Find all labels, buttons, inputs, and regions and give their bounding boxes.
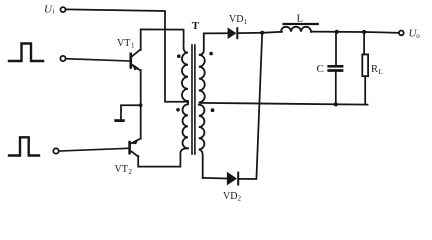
svg-text:VT: VT (115, 164, 128, 175)
transformer core (192, 45, 195, 154)
ground (114, 119, 124, 122)
svg-text:VD: VD (223, 191, 237, 202)
input pulse waveform 2 (9, 137, 39, 155)
svg-text:R: R (371, 64, 378, 75)
wire L to output terminal (311, 32, 399, 33)
junction node A (260, 31, 264, 35)
svg-text:2: 2 (129, 168, 133, 176)
label Uo (409, 28, 421, 40)
polarity dot primary lower (176, 108, 180, 112)
transistor VT1 (131, 49, 141, 70)
wire VT1 collector to primary top (141, 29, 184, 50)
terminal input 2 (53, 148, 58, 153)
label VT2 (115, 164, 133, 176)
transistor VT2 (130, 139, 141, 157)
wire Ui to primary center tap (66, 9, 188, 101)
wire input1 to VT1 base (66, 59, 130, 61)
svg-text:2: 2 (238, 195, 242, 203)
wire VT2 collector to primary bottom (138, 148, 188, 166)
svg-text:U: U (44, 4, 53, 16)
diode VD2 (227, 172, 238, 186)
inductor L core bar (282, 23, 319, 25)
junction C bottom (334, 102, 338, 106)
label VT1 (117, 38, 135, 50)
svg-text:VT: VT (117, 38, 130, 49)
label Ui (44, 4, 55, 16)
inductor L (281, 27, 311, 32)
wire VT1 emitter to VT2 emitter (140, 70, 142, 138)
label VD2 (223, 191, 242, 203)
wire input2 to VT2 base (59, 148, 130, 151)
svg-text:1: 1 (131, 42, 135, 50)
transformer secondary winding lower half (199, 105, 205, 178)
transformer primary winding lower half (183, 103, 188, 149)
svg-text:VD: VD (229, 14, 243, 25)
capacitor C (327, 32, 343, 105)
terminal Ui (61, 7, 66, 12)
wire node A to inductor L (262, 32, 282, 33)
terminal Uo (399, 31, 404, 36)
svg-text:L: L (297, 13, 303, 24)
label RL (371, 64, 383, 76)
polarity dot secondary lower (211, 108, 215, 112)
terminal input 1 (60, 56, 65, 61)
svg-text:i: i (53, 8, 55, 16)
svg-text:o: o (416, 32, 420, 40)
junction C top (335, 30, 339, 34)
diode VD1 (228, 27, 238, 39)
wire secondary bottom to VD2 (203, 177, 227, 180)
transformer secondary winding upper half (199, 33, 205, 103)
wire secondary top to VD1 (204, 32, 228, 34)
wire VD1 to node A (238, 32, 262, 34)
resistor RL (362, 32, 368, 105)
wire node A down to VD2 (239, 33, 262, 179)
junction RL top (362, 30, 366, 34)
polarity dot secondary top (209, 52, 213, 56)
svg-text:T: T (192, 20, 200, 32)
svg-text:L: L (379, 68, 383, 76)
polarity dot primary top (177, 54, 181, 58)
transformer primary winding upper half (182, 48, 188, 102)
svg-text:1: 1 (244, 18, 248, 26)
wire secondary center tap return rail (201, 103, 368, 105)
wire emitter junction to ground (121, 105, 141, 119)
svg-text:C: C (317, 63, 324, 75)
label VD1 (229, 14, 248, 26)
junction emitter-ground (139, 103, 143, 107)
input pulse waveform 1 (9, 44, 43, 62)
